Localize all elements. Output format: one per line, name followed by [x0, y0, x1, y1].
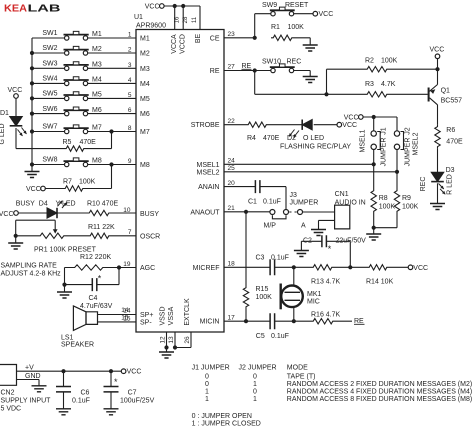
- svg-text:27: 27: [228, 64, 236, 71]
- switch SW8 with wire to M8: [30, 157, 136, 167]
- net label RE right: [354, 318, 365, 325]
- EXTCLK label: [184, 298, 191, 326]
- ground of C6: [56, 409, 71, 415]
- node VCCO of jumpers: [344, 115, 363, 122]
- svg-text:VCC: VCC: [127, 369, 142, 376]
- jumper J3: [270, 192, 318, 219]
- VSSA label: [168, 306, 175, 325]
- svg-text:J3: J3: [290, 192, 298, 199]
- pin 27 label RE: [210, 64, 235, 75]
- svg-text:M1: M1: [140, 36, 150, 43]
- svg-text:KEA: KEA: [4, 4, 27, 15]
- svg-text:SW3: SW3: [42, 61, 57, 68]
- svg-text:VCC: VCC: [0, 211, 14, 218]
- wire R8 R9 join: [374, 214, 397, 228]
- wire CE to SW9: [255, 14, 271, 38]
- pin 28 number: [183, 16, 189, 23]
- svg-text:O LED: O LED: [303, 135, 324, 142]
- svg-text:SAMPLING RATE: SAMPLING RATE: [1, 262, 58, 269]
- svg-text:VCC: VCC: [8, 87, 23, 94]
- svg-text:J1: J1: [381, 127, 388, 135]
- junction RE: [253, 68, 257, 72]
- LED D1: [0, 110, 22, 145]
- wire GND: [17, 380, 40, 386]
- svg-text:VCC: VCC: [145, 4, 160, 11]
- svg-text:7: 7: [128, 229, 132, 236]
- svg-text:C7: C7: [128, 390, 137, 397]
- svg-text:REC: REC: [420, 177, 427, 192]
- svg-text:VSSA: VSSA: [168, 306, 175, 325]
- wire C5 to R16: [275, 319, 311, 323]
- wire R5 to M7 line: [86, 129, 114, 148]
- svg-text:M2: M2: [92, 46, 102, 53]
- pin 12 number: [159, 336, 166, 344]
- svg-text:100K: 100K: [256, 294, 273, 301]
- svg-text:M8: M8: [92, 158, 102, 165]
- wire SW10 to ground: [294, 71, 311, 77]
- wire D1 to R5: [16, 128, 64, 149]
- svg-text:RANDOM ACCESS 4 FIXED DURATION: RANDOM ACCESS 4 FIXED DURATION MESSAGES …: [287, 389, 472, 396]
- svg-text:G LED: G LED: [0, 123, 6, 144]
- svg-text:0.1uF: 0.1uF: [271, 333, 289, 340]
- VCCD label: [180, 34, 187, 54]
- svg-text:VSSD: VSSD: [159, 306, 166, 325]
- svg-text:R15: R15: [256, 286, 269, 293]
- pin 20 label ANAIN: [198, 180, 235, 191]
- svg-text:1: 1: [205, 389, 209, 396]
- node VCC left: [8, 87, 23, 98]
- svg-text:1 : JUMPER CLOSED: 1 : JUMPER CLOSED: [192, 420, 261, 426]
- capacitor C5 0.1uF: [256, 313, 289, 340]
- jumper J1: [360, 127, 388, 166]
- switch SW9 RESET: [262, 2, 309, 16]
- pin 13 number: [168, 336, 175, 344]
- capacitor C6 0.1uF: [56, 371, 90, 409]
- table row 1: [205, 373, 315, 380]
- wire CN1 to ground: [319, 220, 335, 229]
- svg-text:SP-: SP-: [140, 320, 152, 327]
- wire PR1 to ground node: [14, 220, 38, 238]
- svg-text:470E: 470E: [263, 135, 280, 142]
- svg-text:SW1: SW1: [42, 30, 57, 37]
- U1 label: [134, 14, 166, 30]
- junction VSS: [164, 345, 177, 349]
- wire D2 to OVCC: [314, 124, 337, 126]
- connector CN2 supply: [0, 365, 51, 413]
- svg-text:0.1uF: 0.1uF: [263, 198, 281, 205]
- wire R16 to RE: [335, 320, 352, 322]
- pin 24 label MSEL1: [197, 158, 236, 169]
- svg-text:FLASHING REC/PLAY: FLASHING REC/PLAY: [280, 144, 351, 151]
- junction M/P: [244, 210, 248, 214]
- pin 4 label M4: [128, 77, 150, 88]
- svg-text:MIC: MIC: [307, 299, 320, 306]
- svg-text:1: 1: [205, 396, 209, 403]
- svg-text:VCCA: VCCA: [171, 34, 178, 54]
- switch SW6 with wire to M6: [30, 106, 136, 116]
- table footnote: [192, 413, 261, 426]
- wire MSEL2 pin25: [224, 171, 397, 173]
- BE label: [195, 34, 202, 44]
- wire pin19 to R12: [105, 265, 136, 269]
- svg-text:100K: 100K: [379, 204, 396, 211]
- svg-text:BC557: BC557: [441, 97, 463, 104]
- wire A to CN1: [303, 211, 335, 213]
- svg-text:R7: R7: [63, 179, 72, 186]
- node OVCC of supply: [121, 369, 141, 376]
- svg-text:11: 11: [192, 16, 198, 23]
- pin 14 label SP+: [123, 308, 153, 319]
- svg-text:*: *: [98, 274, 102, 284]
- capacitor C4 4.7uF/63V: [65, 268, 120, 311]
- svg-text:SW2: SW2: [42, 45, 57, 52]
- wire pin12 stub: [166, 332, 168, 348]
- resistor R12 220K: [73, 254, 112, 270]
- svg-text:M1: M1: [92, 31, 102, 38]
- svg-text:R16 4.7K: R16 4.7K: [311, 311, 341, 318]
- pin 22 label STROBE: [191, 118, 235, 129]
- junction R8-R9: [372, 226, 376, 230]
- pin 18 label MICREF: [193, 261, 235, 272]
- svg-text:D2: D2: [287, 135, 296, 142]
- D4 light arrows: [58, 201, 67, 208]
- switch SW3 with wire to M3: [30, 61, 136, 71]
- svg-text:M3: M3: [140, 66, 150, 73]
- pin 9 label M8: [128, 158, 150, 169]
- svg-text:M2: M2: [140, 51, 150, 58]
- wire R4 to D2: [269, 124, 303, 126]
- net label RE left: [242, 63, 252, 70]
- svg-text:BUSY: BUSY: [140, 211, 159, 218]
- svg-text:APR9600: APR9600: [136, 23, 166, 30]
- svg-text:13: 13: [168, 336, 175, 344]
- svg-text:M6: M6: [140, 111, 150, 118]
- svg-text:100K: 100K: [79, 179, 96, 186]
- svg-text:*: *: [328, 244, 332, 254]
- wire R2 to VCC node: [389, 67, 440, 71]
- svg-text:M4: M4: [140, 81, 150, 88]
- resistor R8 100K: [371, 189, 395, 214]
- labels BUSY D4 Y LED: [16, 200, 76, 207]
- switch SW2 with wire to M2: [30, 45, 136, 55]
- svg-text:RESET: RESET: [285, 2, 309, 9]
- jumper J2: [394, 127, 419, 166]
- svg-text:C2: C2: [303, 237, 312, 244]
- svg-text:12: 12: [159, 336, 166, 344]
- pin 21 label ANAOUT: [190, 205, 235, 216]
- wire up to R2: [327, 69, 366, 94]
- svg-text:22uF/50V: 22uF/50V: [336, 237, 367, 244]
- svg-text:OSCR: OSCR: [140, 233, 160, 240]
- svg-text:PR1 100K PRESET: PR1 100K PRESET: [34, 247, 97, 254]
- svg-text:+V: +V: [25, 365, 34, 372]
- svg-text:MICREF: MICREF: [193, 265, 220, 272]
- D3 light arrows: [439, 184, 446, 195]
- svg-text:M5: M5: [92, 92, 102, 99]
- wire CE pin23: [224, 37, 255, 39]
- svg-text:M5: M5: [140, 96, 150, 103]
- wire to J2 top: [396, 117, 398, 131]
- VSSD label: [159, 306, 166, 325]
- wire MSEL1 pin24: [224, 163, 374, 165]
- wire D4 to R10: [57, 212, 87, 214]
- junction C2-R13-R14: [348, 265, 352, 269]
- svg-text:R4: R4: [247, 135, 256, 142]
- svg-text:R9: R9: [402, 195, 411, 202]
- wire J2 to MSEL2: [395, 150, 399, 174]
- svg-text:SW5: SW5: [42, 91, 57, 98]
- resistor R4 470E: [246, 122, 280, 142]
- svg-text:M7: M7: [92, 125, 102, 132]
- wire R10 to pin10: [111, 212, 136, 214]
- wire C1 to J3: [260, 187, 286, 210]
- ground of C4: [57, 285, 72, 298]
- wire SW9 to VCC: [294, 13, 313, 15]
- svg-text:C5: C5: [256, 333, 265, 340]
- svg-text:EXTCLK: EXTCLK: [184, 298, 191, 326]
- wire MSEL1 to R8: [373, 164, 375, 188]
- svg-text:23: 23: [228, 31, 236, 38]
- svg-text:SW8: SW8: [42, 157, 57, 164]
- svg-text:D3: D3: [446, 167, 455, 174]
- svg-text:CN2: CN2: [1, 390, 15, 397]
- svg-text:16: 16: [175, 16, 181, 23]
- svg-text:SUPPLY INPUT: SUPPLY INPUT: [1, 398, 52, 405]
- svg-text:MODE: MODE: [287, 365, 308, 372]
- svg-text:M6: M6: [92, 107, 102, 114]
- svg-text:M3: M3: [92, 62, 102, 69]
- svg-text:0.1uF: 0.1uF: [72, 398, 90, 405]
- svg-text:470E: 470E: [80, 139, 97, 146]
- wire RE to SW10: [255, 70, 271, 72]
- resistor R14 10K: [366, 265, 394, 286]
- wire ANAOUT pin21: [224, 211, 270, 213]
- svg-text:20: 20: [228, 180, 236, 187]
- svg-text:C1: C1: [248, 198, 257, 205]
- svg-text:STROBE: STROBE: [191, 122, 220, 129]
- svg-text:VCC: VCC: [319, 11, 334, 18]
- svg-text:25: 25: [228, 165, 236, 172]
- svg-text:22: 22: [228, 118, 236, 125]
- wire R12 to corner: [65, 268, 73, 285]
- resistor R9 100K: [394, 189, 418, 214]
- svg-text:VCC: VCC: [26, 186, 41, 193]
- node VCCO for D4: [0, 211, 18, 218]
- svg-text:ANAOUT: ANAOUT: [190, 209, 220, 216]
- wire VCCO to R7: [45, 188, 63, 190]
- svg-text:VCCD: VCCD: [180, 34, 187, 54]
- microphone MK1 MIC: [281, 267, 322, 321]
- svg-text:0 : JUMPER OPEN: 0 : JUMPER OPEN: [192, 413, 252, 420]
- svg-text:D4: D4: [39, 200, 48, 207]
- top VCC supply node VCCO: [145, 4, 200, 11]
- svg-text:M/P: M/P: [264, 222, 277, 229]
- svg-text:18: 18: [228, 261, 236, 268]
- svg-text:VCC: VCC: [430, 47, 445, 54]
- svg-text:0: 0: [253, 373, 257, 380]
- resistor R1 100K: [271, 24, 304, 40]
- svg-text:SP+: SP+: [140, 312, 153, 319]
- svg-text:ANAIN: ANAIN: [198, 184, 219, 191]
- node OVCC of R14: [408, 265, 428, 272]
- wire J1 to MSEL1: [372, 150, 376, 167]
- wire VCCO to jumpers: [363, 115, 397, 119]
- wire D3 to ground: [437, 183, 439, 203]
- svg-text:R LED: R LED: [447, 174, 454, 195]
- table header: [192, 365, 309, 372]
- wire R1 to ground: [294, 38, 310, 45]
- svg-text:Q1: Q1: [441, 88, 450, 95]
- wire pin13 stub: [174, 332, 176, 348]
- table row 4: [205, 396, 472, 403]
- label REC vertical: [420, 177, 427, 192]
- connector CN1 AUDIO IN: [335, 191, 366, 229]
- switch SW1 with wire to M1: [32, 30, 136, 40]
- resistor R11 22K: [88, 224, 115, 238]
- node OVCC of D2: [337, 122, 357, 129]
- pin 17 label MICIN: [200, 314, 235, 325]
- svg-text:AGC: AGC: [140, 265, 155, 272]
- ground of D3: [430, 204, 445, 210]
- pin 6 label M6: [128, 107, 150, 118]
- svg-text:R10 470E: R10 470E: [87, 200, 118, 207]
- ground of C7: [104, 409, 119, 415]
- preset PR1 100K: [16, 220, 97, 253]
- ground of switch bus: [25, 172, 40, 178]
- junction CE: [253, 36, 257, 40]
- svg-text:1: 1: [253, 396, 257, 403]
- resistor R6 470E: [435, 124, 463, 149]
- svg-text:MSEL1: MSEL1: [197, 162, 220, 169]
- table row 3: [205, 389, 472, 396]
- wire pin7 to R11: [111, 235, 136, 237]
- junction RE-R3: [324, 92, 328, 96]
- pin 26 number: [184, 336, 191, 344]
- wire pin11 stub: [199, 6, 201, 30]
- svg-text:M7: M7: [140, 129, 150, 136]
- svg-text:VCC: VCC: [344, 115, 359, 122]
- svg-text:LAB: LAB: [28, 4, 61, 15]
- pin 25 label MSEL2: [197, 165, 236, 176]
- labels D2 O LED: [280, 135, 351, 151]
- table row 2: [205, 381, 472, 388]
- label sampling rate: [1, 262, 62, 277]
- resistor R13 4.7K: [311, 265, 341, 286]
- svg-text:R12 220K: R12 220K: [80, 254, 111, 261]
- wire VCC to D1: [15, 98, 17, 116]
- resistor R7 100K: [63, 179, 96, 192]
- wire R13 to R14: [334, 266, 367, 268]
- wire to R3: [327, 93, 366, 95]
- ground of R8 R9: [366, 228, 381, 240]
- svg-text:24: 24: [228, 158, 236, 165]
- svg-text:R1: R1: [271, 24, 280, 31]
- svg-text:CN1: CN1: [335, 191, 349, 198]
- wire MICIN pin17: [224, 320, 270, 322]
- wire SP- pin15: [98, 315, 137, 322]
- wire to J1 top: [373, 117, 375, 131]
- svg-text:SPEAKER: SPEAKER: [61, 342, 94, 349]
- svg-text:C4: C4: [89, 295, 98, 302]
- ground of C2: [294, 251, 309, 257]
- svg-text:MK1: MK1: [307, 291, 322, 298]
- wire pin16 stub: [174, 6, 176, 30]
- svg-text:BUSY: BUSY: [16, 200, 35, 207]
- capacitor C2 22uF/50V: [301, 235, 366, 267]
- svg-text:RE: RE: [354, 318, 364, 325]
- svg-text:R14 10K: R14 10K: [366, 279, 394, 286]
- pin 1 label M1: [128, 32, 150, 43]
- resistor R2 100K: [365, 58, 398, 72]
- svg-text:R13 4.7K: R13 4.7K: [311, 279, 341, 286]
- svg-text:ADJUST 4.2-8 KHz: ADJUST 4.2-8 KHz: [1, 271, 62, 278]
- VCCA label: [171, 34, 178, 54]
- svg-text:J2: J2: [405, 127, 412, 135]
- pin 23 label CE: [210, 31, 235, 42]
- pin 11 number: [192, 16, 198, 23]
- resistor R10 470E: [87, 200, 118, 215]
- ground of R1: [303, 45, 318, 51]
- switch SW7 with wire to M7: [30, 124, 136, 134]
- ground VSS: [159, 348, 174, 359]
- svg-text:100K: 100K: [402, 204, 419, 211]
- ground of SW10: [303, 77, 318, 83]
- switch SW10 REC: [262, 59, 301, 73]
- capacitor C7 100uF/25V: [104, 371, 155, 409]
- svg-text:SW9: SW9: [262, 2, 277, 9]
- svg-text:4.7K: 4.7K: [381, 81, 396, 88]
- pin 3 label M3: [128, 62, 150, 73]
- svg-text:100uF/25V: 100uF/25V: [120, 398, 155, 405]
- svg-text:JUMPER: JUMPER: [290, 200, 319, 207]
- svg-text:D1: D1: [0, 110, 9, 117]
- resistor R15 100K: [243, 212, 272, 321]
- svg-text:J2 JUMPER: J2 JUMPER: [239, 365, 277, 372]
- svg-text:A: A: [301, 222, 306, 229]
- svg-text:14: 14: [121, 307, 129, 314]
- switch SW5 with wire to M5: [30, 91, 136, 101]
- junction R15-MICIN: [244, 319, 248, 323]
- svg-text:AUDIO IN: AUDIO IN: [335, 199, 366, 206]
- wire R7 to M8 line: [85, 162, 114, 188]
- svg-text:1: 1: [253, 381, 257, 388]
- wire pin28 stub: [182, 6, 184, 30]
- svg-text:R5: R5: [63, 139, 72, 146]
- labels M/P and A: [264, 222, 307, 229]
- svg-text:0.1uF: 0.1uF: [271, 255, 289, 262]
- wire RE pin27: [224, 70, 255, 72]
- pin 8 label M7: [128, 125, 150, 136]
- svg-text:SW6: SW6: [42, 106, 57, 113]
- svg-text:R6: R6: [446, 127, 455, 134]
- svg-text:SW10: SW10: [262, 59, 281, 66]
- svg-text:VCC: VCC: [342, 122, 357, 129]
- switch SW4 with wire to M4: [30, 76, 136, 86]
- svg-text:VCC: VCC: [413, 265, 428, 272]
- svg-text:TAPE (T): TAPE (T): [287, 373, 316, 380]
- svg-text:J1 JUMPER: J1 JUMPER: [192, 365, 230, 372]
- wire pin26 stub: [175, 332, 191, 348]
- svg-text:MSEL2: MSEL2: [197, 169, 220, 176]
- svg-text:CE: CE: [210, 35, 220, 42]
- svg-text:26: 26: [184, 336, 191, 344]
- wire R6 to D3: [437, 149, 439, 174]
- svg-text:R8: R8: [379, 195, 388, 202]
- svg-text:0: 0: [205, 373, 209, 380]
- wire VCCO to D4: [18, 212, 47, 214]
- label R LED vertical: [447, 174, 454, 195]
- wire MSEL2 to R9: [396, 172, 398, 189]
